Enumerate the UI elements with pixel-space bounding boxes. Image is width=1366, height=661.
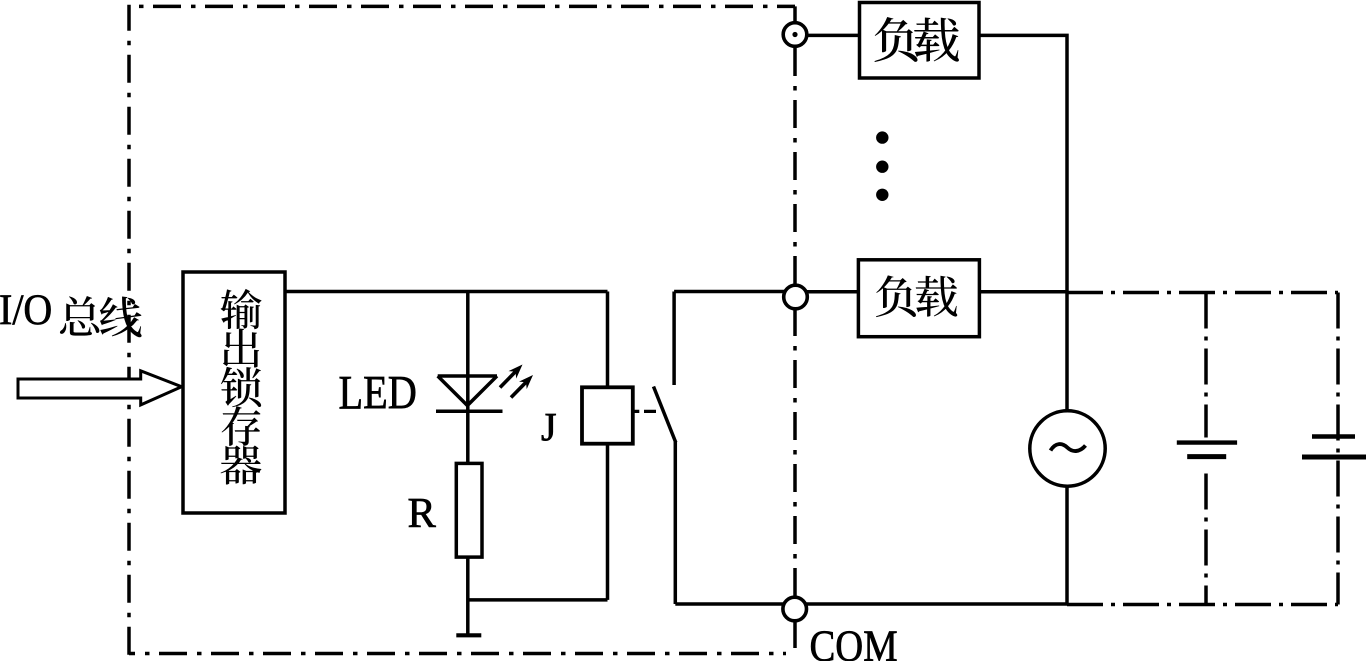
ellipsis dots between loads <box>876 131 888 143</box>
PLC module dash-dot boundary box <box>139 5 795 9</box>
svg-text:R: R <box>408 490 437 537</box>
LED D1 symbol <box>438 374 497 378</box>
load box 1 (top) <box>860 3 980 79</box>
terminal 1 center dot <box>792 32 797 37</box>
wire: relay branch vertical (bottom) <box>606 443 610 600</box>
right external-supply dash-dot boundary <box>1067 291 1338 295</box>
battery GB1 branch dash-dot leads <box>1204 293 1208 438</box>
output terminal 1 (top) <box>783 23 807 47</box>
AC source lower lead <box>1065 486 1069 604</box>
wire: terminal to load 2 <box>795 290 860 294</box>
LED cathode bar <box>436 410 503 414</box>
wire: switch to output terminal <box>674 290 795 294</box>
ground symbol <box>456 633 481 637</box>
svg-text:J: J <box>541 405 557 450</box>
wire: load 1 to supply rail <box>979 35 1067 292</box>
wire: bottom COM rail <box>675 602 1067 606</box>
output latch box U1 <box>183 272 285 513</box>
battery GB2 short plate <box>1312 434 1355 438</box>
relay contact switch: fixed top lead <box>672 292 676 386</box>
svg-text:COM: COM <box>810 622 898 661</box>
label 总线 <box>60 296 99 336</box>
PLC output terminal rail (dash-dot vertical through terminals) <box>793 6 797 651</box>
label 输出锁存器 <box>221 289 262 329</box>
wire: latch output to relay branch (top rail) <box>285 290 608 294</box>
battery GB2 long plate <box>1302 455 1366 460</box>
LED light arrow 2 <box>511 375 533 398</box>
AC source G1 circle <box>1030 411 1105 486</box>
output terminal 2 (middle) <box>784 285 808 309</box>
I/O bus hollow arrow <box>18 371 182 405</box>
AC tilde <box>1051 444 1086 451</box>
AC source upper lead <box>1065 292 1069 411</box>
label 负载 (middle load) <box>876 275 916 317</box>
battery GB1 long plate <box>1177 440 1237 444</box>
wire: relay branch vertical (top) <box>606 292 610 387</box>
wire: terminal to load 1 <box>795 34 860 38</box>
COM terminal (bottom) <box>783 597 807 621</box>
battery GB1 short plate <box>1187 454 1226 459</box>
relay coil J box <box>582 387 633 443</box>
mechanical dashed link coil to contact <box>633 410 658 413</box>
label 负载 (top load) <box>874 17 917 62</box>
wire: load 2 to supply rail <box>979 290 1067 294</box>
LED light arrow 1 <box>500 365 523 388</box>
wire: LED branch vertical <box>466 292 470 634</box>
resistor R body <box>456 463 482 557</box>
wire: bottom of LED/R branch to relay branch <box>468 598 608 602</box>
relay contact blade <box>654 387 676 443</box>
relay contact bottom lead <box>674 441 678 604</box>
svg-text:LED: LED <box>339 366 417 419</box>
svg-text:I/O: I/O <box>0 286 52 334</box>
load box 2 (middle) <box>858 260 979 337</box>
